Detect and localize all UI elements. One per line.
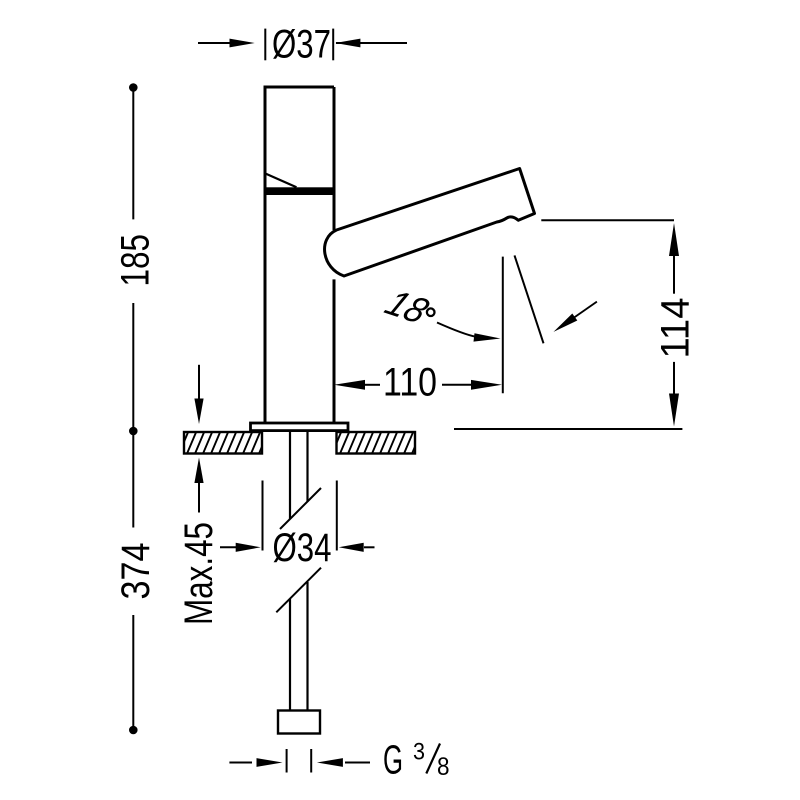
handle lever diagonal line: [265, 173, 297, 187]
pipe break slash lower: [276, 568, 321, 613]
dimension 110: [364, 384, 476, 386]
svg-text:110: 110: [383, 361, 437, 405]
dimension Ø37 top: [198, 29, 407, 61]
svg-text:8: 8: [437, 753, 450, 781]
svg-text:114: 114: [654, 298, 698, 359]
pipe break slash upper: [280, 488, 321, 529]
svg-text:Ø37: Ø37: [272, 23, 331, 67]
base plate (escutcheon): [251, 423, 349, 431]
svg-text:3: 3: [413, 739, 425, 766]
dimension 374 left: [129, 427, 138, 436]
svg-text:Ø34: Ø34: [273, 526, 332, 570]
handle cartridge ring (filled bar): [264, 187, 335, 195]
svg-text:374: 374: [114, 543, 158, 600]
dimension Max.45 arrows: [198, 365, 200, 402]
svg-text:185: 185: [114, 234, 158, 287]
water stream line: [515, 255, 544, 343]
faucet body outline: [265, 87, 334, 423]
countertop right hatched section: [331, 430, 422, 456]
degree symbol: [427, 308, 435, 316]
water stream arrow from upper right: [572, 302, 597, 319]
svg-text:Max.45: Max.45: [177, 522, 221, 625]
supply pipes upper run: [290, 432, 308, 520]
bottom fitting nut: [278, 711, 320, 734]
dimension 185 left: [129, 83, 138, 92]
svg-text:G: G: [383, 737, 403, 783]
18 degree arc leader with arrow: [437, 323, 476, 337]
vertical reference line at spout outlet: [502, 257, 504, 394]
dimension Ø34: [220, 481, 375, 551]
dimension 114 right: [541, 219, 674, 221]
spout: [325, 169, 535, 277]
supply pipes lower run: [290, 582, 308, 711]
dimension G 3/8 bottom: [229, 749, 370, 773]
